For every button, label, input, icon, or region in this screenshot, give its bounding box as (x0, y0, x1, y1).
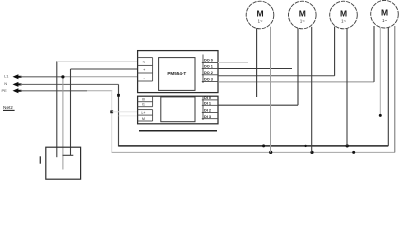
wire motor M3 right lead to dark bus (346, 27, 348, 146)
arrow on N line (13, 82, 22, 87)
wire motor M1 right lead to gray bus (270, 27, 272, 153)
CPU inner box with type label (159, 58, 195, 91)
arrow on PE line (13, 88, 22, 93)
wire motor M2 right lead to gray bus (311, 27, 313, 153)
svg-text:DO 2: DO 2 (204, 71, 213, 75)
junction dot gray bus 1 (269, 151, 272, 154)
arrow on L1 line (13, 74, 22, 79)
tick left of supply box (39, 156, 41, 163)
junction square on PE drop (110, 110, 113, 113)
wire motor M4 lead c up from dark bus (387, 27, 389, 146)
pin cell lines top box left (138, 58, 153, 81)
leader DO0 (faint, open end) (218, 62, 248, 64)
svg-text:I0: I0 (142, 98, 145, 102)
gray bus PE (bottom) (112, 151, 395, 153)
wire mains N horizontal (21, 83, 119, 85)
svg-text:M: M (142, 117, 145, 121)
dark bus N (bottom) (119, 145, 389, 147)
svg-text:L+: L+ (142, 111, 146, 115)
wire V2 gray vertical to supply box (62, 77, 64, 170)
svg-text:M: M (340, 8, 347, 18)
pin cell lines bottom box left (138, 96, 153, 121)
svg-text:I1: I1 (142, 103, 145, 107)
wire faint to module bottom pin 3 (112, 111, 138, 113)
leader DO1 (open end near motor M2) (218, 68, 292, 70)
wire faint to module bottom pin 4 (119, 115, 138, 117)
wire motor M3 left lead (334, 27, 336, 76)
wire motor M1 left lead (open end) (256, 27, 258, 97)
wire motor M4 lead a (373, 26, 375, 82)
svg-text:L1: L1 (4, 74, 9, 79)
junction dot gray bus 2 (310, 151, 313, 154)
leader DI1 to motor M2 left lead (218, 104, 298, 106)
svg-text:M: M (299, 8, 306, 18)
wire mains L1 horizontal (21, 76, 64, 78)
junction dot dark bus 2 (304, 145, 306, 147)
module bottom rail line (139, 130, 217, 132)
divider line right label column bottom box (202, 96, 204, 120)
svg-text:DO 1: DO 1 (204, 65, 213, 69)
terminal square on V4 (117, 94, 120, 97)
PLC module U1 bottom box (138, 96, 218, 124)
PLC module U1 top box (138, 51, 218, 93)
junction dot dark bus 1 (262, 144, 265, 147)
wire mains PE horizontal (21, 90, 88, 92)
wire motor M2 left lead (297, 27, 299, 105)
wire V3 vertical to supply box (70, 69, 72, 155)
svg-text:DO 0: DO 0 (204, 59, 213, 63)
svg-text:1~: 1~ (300, 19, 305, 24)
svg-text:1~: 1~ (382, 18, 387, 23)
underline of Netz label (3, 109, 15, 111)
junction dot dark bus 3 (346, 144, 349, 147)
motor M2 (289, 1, 317, 29)
leader DO2 to motor M3 (218, 75, 335, 77)
wire PE faint drop vertical (111, 91, 113, 153)
svg-text:1~: 1~ (341, 19, 346, 24)
motor M1 (246, 1, 274, 29)
svg-text:N: N (4, 81, 7, 86)
motor M3 (330, 1, 358, 29)
motor M4 (371, 0, 399, 28)
svg-text:PE: PE (2, 88, 8, 93)
supply box T1 (46, 147, 81, 179)
wire faint from V1 to module pin 1 (58, 60, 138, 62)
svg-text:DO 3: DO 3 (204, 78, 213, 82)
svg-text:M: M (256, 8, 263, 18)
svg-text:1~: 1~ (258, 19, 263, 24)
junction dot gray bus 3 (352, 151, 355, 154)
svg-text:PM554-T: PM554-T (167, 71, 186, 76)
svg-text:M: M (381, 8, 388, 18)
inner box bottom (161, 97, 195, 122)
wire from V3 corner to module pin 2 (71, 68, 138, 70)
wire motor M4 lead d up from gray bus (394, 26, 396, 152)
leader DO3 to motor M4 (218, 81, 374, 83)
junction dot on L1 line at V2 (61, 75, 64, 78)
wire V4 neutral drop vertical (118, 84, 120, 146)
wire V1 vertical to supply box (56, 61, 58, 157)
divider line right label column top box (202, 55, 204, 84)
bar inside supply box (63, 154, 74, 156)
svg-text:~: ~ (143, 60, 146, 65)
wire motor M4 lead b gray with end dot (379, 28, 381, 116)
